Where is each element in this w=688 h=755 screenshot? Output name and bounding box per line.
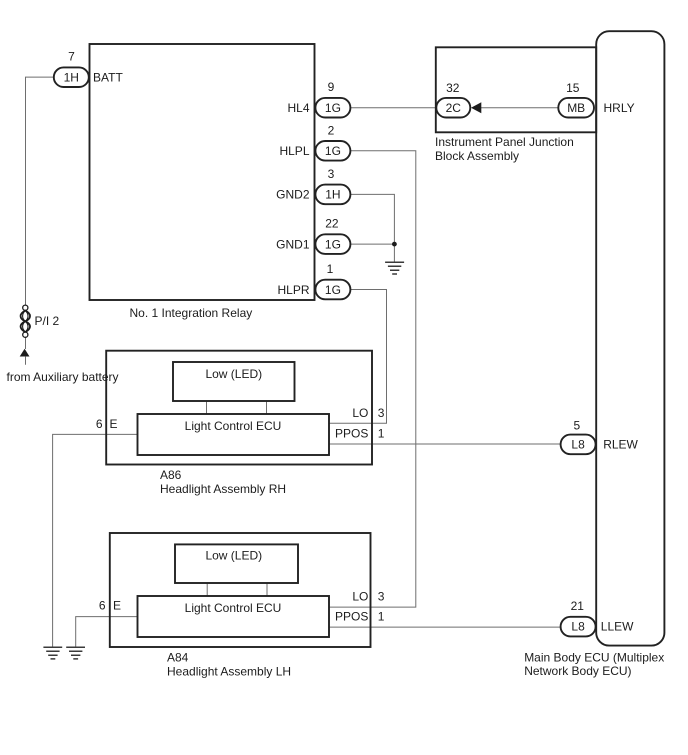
- svg-text:1G: 1G: [325, 101, 341, 115]
- svg-text:from Auxiliary battery: from Auxiliary battery: [7, 370, 119, 384]
- svg-text:1: 1: [327, 262, 334, 276]
- svg-text:HLPL: HLPL: [279, 144, 309, 158]
- svg-text:1: 1: [378, 427, 385, 441]
- svg-text:L8: L8: [571, 620, 585, 634]
- svg-text:L8: L8: [571, 438, 585, 452]
- svg-text:Light Control ECU: Light Control ECU: [185, 419, 282, 433]
- svg-text:LO: LO: [352, 406, 368, 420]
- svg-text:1G: 1G: [325, 283, 341, 297]
- svg-text:PPOS: PPOS: [335, 610, 368, 624]
- svg-text:MB: MB: [567, 101, 585, 115]
- svg-text:Network Body ECU): Network Body ECU): [524, 664, 631, 678]
- svg-text:1H: 1H: [325, 188, 340, 202]
- svg-text:PPOS: PPOS: [335, 427, 368, 441]
- svg-text:21: 21: [571, 599, 585, 613]
- svg-text:A86: A86: [160, 468, 182, 482]
- svg-text:GND2: GND2: [276, 188, 310, 202]
- svg-text:1G: 1G: [325, 237, 341, 251]
- svg-text:P/I 2: P/I 2: [35, 314, 60, 328]
- svg-text:Headlight Assembly LH: Headlight Assembly LH: [167, 665, 291, 679]
- svg-text:2: 2: [328, 123, 335, 137]
- svg-text:LLEW: LLEW: [601, 619, 634, 633]
- svg-text:A84: A84: [167, 651, 189, 665]
- svg-text:3: 3: [378, 406, 385, 420]
- svg-text:Light Control ECU: Light Control ECU: [185, 601, 282, 615]
- svg-text:22: 22: [325, 217, 339, 231]
- svg-text:LO: LO: [352, 590, 368, 604]
- svg-text:3: 3: [328, 167, 335, 181]
- svg-text:BATT: BATT: [93, 70, 123, 84]
- svg-text:2C: 2C: [446, 101, 462, 115]
- svg-text:No. 1 Integration Relay: No. 1 Integration Relay: [130, 306, 253, 320]
- svg-text:Low (LED): Low (LED): [205, 367, 262, 381]
- svg-text:Main Body ECU (Multiplex: Main Body ECU (Multiplex: [524, 651, 664, 665]
- svg-text:E: E: [113, 599, 121, 613]
- svg-text:1: 1: [378, 610, 385, 624]
- svg-text:9: 9: [328, 80, 335, 94]
- svg-text:Block Assembly: Block Assembly: [435, 149, 519, 163]
- svg-text:6: 6: [96, 417, 103, 431]
- svg-text:RLEW: RLEW: [603, 438, 638, 452]
- svg-text:1H: 1H: [64, 70, 79, 84]
- svg-text:HRLY: HRLY: [604, 101, 635, 115]
- svg-text:6: 6: [99, 599, 106, 613]
- svg-text:HLPR: HLPR: [277, 283, 309, 297]
- svg-text:GND1: GND1: [276, 237, 310, 251]
- svg-text:1G: 1G: [325, 144, 341, 158]
- svg-text:HL4: HL4: [287, 101, 309, 115]
- svg-text:Headlight Assembly RH: Headlight Assembly RH: [160, 482, 286, 496]
- svg-text:5: 5: [573, 419, 580, 433]
- svg-text:3: 3: [378, 590, 385, 604]
- svg-text:7: 7: [68, 49, 75, 63]
- svg-text:15: 15: [566, 81, 580, 95]
- svg-text:32: 32: [446, 81, 460, 95]
- svg-text:Instrument Panel Junction: Instrument Panel Junction: [435, 135, 574, 149]
- svg-text:E: E: [110, 417, 118, 431]
- svg-text:Low (LED): Low (LED): [205, 548, 262, 562]
